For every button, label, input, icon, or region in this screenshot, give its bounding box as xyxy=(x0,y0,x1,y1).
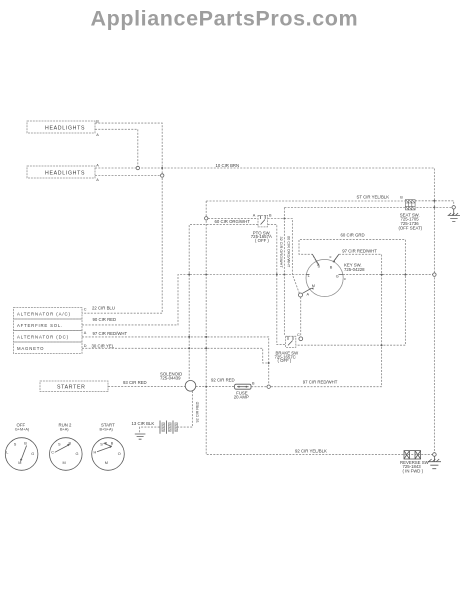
wire headlight1 B to 22 CIR BLU (alternator A/C) xyxy=(82,123,162,313)
wire PTO lower right to brake switch left pin xyxy=(268,225,286,345)
svg-text:O: O xyxy=(118,452,121,456)
wire headlight1 A down to junction xyxy=(95,129,138,166)
svg-text:AFTERFIRE SOL.: AFTERFIRE SOL. xyxy=(17,323,63,328)
svg-text:725-04228: 725-04228 xyxy=(344,267,365,272)
wire 97 CIR RED/WHT: key B top, down right, bottom run to fuse xyxy=(251,254,381,386)
wire 92 CIR RED solenoid to fuse xyxy=(196,386,235,388)
svg-text:22 CIR BLU: 22 CIR BLU xyxy=(92,305,115,310)
afterfire sol box xyxy=(14,317,117,330)
key position circle RUN 2 xyxy=(50,422,83,470)
bottom right ground xyxy=(428,453,441,469)
svg-text:HEADLIGHTS: HEADLIGHTS xyxy=(45,171,85,177)
wire key switch right pin to right trunk xyxy=(343,274,433,276)
svg-text:B: B xyxy=(24,442,27,446)
solenoid circle xyxy=(160,372,196,391)
wire key A circle down to brake C circle xyxy=(300,297,302,337)
svg-text:( OFF ): ( OFF ) xyxy=(278,358,292,363)
svg-text:10 CIR BRN: 10 CIR BRN xyxy=(216,163,240,168)
svg-text:S: S xyxy=(318,265,321,269)
svg-text:L: L xyxy=(308,274,310,278)
svg-text:97 CIR RED/WHT: 97 CIR RED/WHT xyxy=(303,379,338,384)
svg-text:G: G xyxy=(336,274,339,278)
svg-text:S: S xyxy=(14,442,17,446)
svg-text:B: B xyxy=(269,214,272,218)
wire headlight2 lower pin to junction xyxy=(95,175,161,177)
svg-text:H: H xyxy=(94,451,97,455)
key A pin circle xyxy=(299,293,303,297)
svg-text:30 CIR YEL: 30 CIR YEL xyxy=(92,343,115,348)
svg-text:92 CIR RED: 92 CIR RED xyxy=(211,377,235,382)
svg-text:D: D xyxy=(84,344,87,348)
wire 30 CIR YEL magneto staircase xyxy=(82,348,269,363)
svg-text:G: G xyxy=(31,452,34,456)
headlight 1 box xyxy=(27,119,99,137)
magneto box xyxy=(14,342,115,354)
wire 60 CIR GRD: key S leg, top run, right vertical, brake output xyxy=(296,240,406,346)
svg-text:92 CIR YEL/BLK: 92 CIR YEL/BLK xyxy=(295,448,327,453)
svg-text:A: A xyxy=(96,133,99,137)
svg-text:32 CIR ORG/WHT: 32 CIR ORG/WHT xyxy=(279,237,283,269)
svg-text:97 CIR RED/WHT: 97 CIR RED/WHT xyxy=(342,249,377,254)
svg-text:A: A xyxy=(253,214,256,218)
svg-text:C: C xyxy=(84,308,87,312)
svg-text:93 CIR RED: 93 CIR RED xyxy=(123,380,147,385)
wire seat switch lower pin run to ground xyxy=(284,208,452,337)
wire PTO B down to key switch A circle xyxy=(268,219,300,294)
key position circle START xyxy=(92,422,125,470)
svg-text:20 AMP: 20 AMP xyxy=(234,394,249,399)
wire seat switch B to top right ground xyxy=(415,201,454,206)
svg-text:C: C xyxy=(297,333,300,337)
reverse switch connector xyxy=(400,451,430,474)
battery ground xyxy=(135,434,146,439)
svg-text:M: M xyxy=(18,461,21,465)
svg-text:A: A xyxy=(307,293,310,297)
svg-text:MAGNETO: MAGNETO xyxy=(17,346,44,351)
svg-text:ALTERNATOR (A/C): ALTERNATOR (A/C) xyxy=(17,311,71,316)
svg-text:A: A xyxy=(96,178,99,182)
svg-text:90 CIR RED: 90 CIR RED xyxy=(93,317,117,322)
svg-text:G: G xyxy=(76,452,79,456)
svg-text:B: B xyxy=(252,382,255,386)
wire 60 CIR ORG/WHT to PTO A xyxy=(206,218,258,220)
junction dots xyxy=(161,167,435,388)
svg-text:RUN 2: RUN 2 xyxy=(59,422,73,427)
svg-text:C: C xyxy=(51,451,54,455)
svg-text:S: S xyxy=(58,442,61,446)
wire 93 CIR RED starter to solenoid xyxy=(108,385,185,387)
svg-text:AppliancePartsPros.com: AppliancePartsPros.com xyxy=(91,7,359,31)
brake C pin circle xyxy=(299,337,303,341)
svg-text:92 CIR RED: 92 CIR RED xyxy=(195,401,199,422)
brake switch xyxy=(275,333,301,363)
PTO switch xyxy=(251,214,272,244)
fuse F1 xyxy=(234,382,255,400)
svg-text:S: S xyxy=(100,442,103,446)
wire ST CIR YEL/BLK vertical trunk down to 92 CIR YEL/BLK bottom wire xyxy=(206,201,432,455)
key position circle OFF xyxy=(5,422,38,470)
battery B1 xyxy=(132,421,178,434)
svg-text:M: M xyxy=(312,284,315,288)
svg-text:13 CIR BLK: 13 CIR BLK xyxy=(132,421,155,426)
svg-text:M: M xyxy=(105,461,108,465)
svg-text:HEADLIGHTS: HEADLIGHTS xyxy=(45,126,85,132)
svg-text:ALTERNATOR (DC): ALTERNATOR (DC) xyxy=(17,335,69,340)
svg-text:c: c xyxy=(330,255,332,259)
svg-text:L: L xyxy=(6,451,8,455)
headlight 2 box xyxy=(27,164,99,183)
alternator (DC) box xyxy=(14,331,128,343)
svg-text:M: M xyxy=(63,461,66,465)
wire PTO lower left leg down to solenoid xyxy=(189,225,258,381)
svg-text:B: B xyxy=(400,196,403,200)
svg-text:c: c xyxy=(344,277,346,281)
svg-text:A: A xyxy=(96,164,99,168)
wire 90 CIR RED: afterfire sol to key switch L xyxy=(82,275,306,325)
svg-text:START: START xyxy=(101,422,115,427)
svg-text:B+S+A): B+S+A) xyxy=(100,428,114,432)
alternator (A/C) box xyxy=(14,305,115,319)
svg-text:ST CIR YEL/BLK: ST CIR YEL/BLK xyxy=(357,194,390,199)
key switch U1 xyxy=(303,254,366,296)
wire 10 CIR BRN: headlight2 A right, down right side to bottom ground xyxy=(95,168,434,453)
svg-text:725-04439: 725-04439 xyxy=(160,376,181,381)
svg-text:97 CIR RED/WHT: 97 CIR RED/WHT xyxy=(93,331,128,336)
svg-text:60 CIR ORG/WHT: 60 CIR ORG/WHT xyxy=(215,219,251,224)
svg-text:60 CIR GRD: 60 CIR GRD xyxy=(341,233,365,238)
top right ground xyxy=(448,206,460,222)
svg-text:STARTER: STARTER xyxy=(57,385,86,391)
svg-text:( IN FWD ): ( IN FWD ) xyxy=(403,469,424,474)
svg-text:B+A): B+A) xyxy=(60,428,69,432)
open circle junctions xyxy=(136,166,139,169)
svg-text:( OFF ): ( OFF ) xyxy=(255,238,269,243)
svg-text:A: A xyxy=(84,331,87,335)
svg-text:60 CIR ORG/WHT: 60 CIR ORG/WHT xyxy=(287,236,291,268)
svg-text:G+M+A): G+M+A) xyxy=(15,428,30,432)
wire ST CIR YEL/BLK horizontal to seat switch xyxy=(206,200,405,202)
svg-text:B: B xyxy=(330,266,333,270)
wire solenoid bottom to battery xyxy=(177,391,192,427)
wire battery negative to ground xyxy=(140,427,160,434)
svg-text:B: B xyxy=(111,442,114,446)
svg-text:OFF: OFF xyxy=(17,422,26,427)
seat switch connector xyxy=(399,196,423,231)
starter box xyxy=(40,380,147,392)
wire 97 CIR RED/WHT alternator DC to bottom circle junction xyxy=(82,337,269,385)
svg-text:(OFF SEAT): (OFF SEAT) xyxy=(399,226,423,231)
